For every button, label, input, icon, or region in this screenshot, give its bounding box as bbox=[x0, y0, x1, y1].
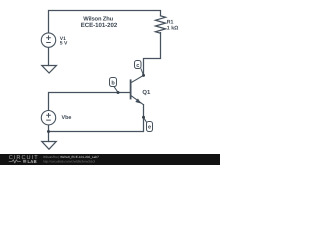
wire: junction to bottom ground bbox=[48, 132, 50, 142]
wire: emitter run bbox=[49, 105, 144, 132]
wire: Vbe bottom to junction bbox=[48, 125, 50, 132]
svg-text:c: c bbox=[136, 63, 139, 69]
svg-text:5 V: 5 V bbox=[60, 41, 68, 47]
wire: Vbe top to base of Q1 bbox=[49, 93, 131, 111]
flag c (collector terminal) bbox=[135, 61, 146, 77]
transistor Q1 bbox=[131, 75, 144, 104]
footer bar bbox=[0, 154, 220, 165]
svg-text:R1: R1 bbox=[167, 19, 174, 25]
voltage source V1 bbox=[41, 33, 55, 47]
svg-text:e: e bbox=[148, 125, 151, 131]
svg-text:1 kΩ: 1 kΩ bbox=[167, 25, 179, 31]
canvas background bbox=[0, 0, 220, 165]
resistor R1 bbox=[156, 16, 166, 33]
flag b (base terminal) bbox=[110, 78, 120, 95]
ground at bottom bbox=[42, 142, 56, 150]
svg-text:Vbe: Vbe bbox=[62, 115, 72, 121]
svg-text:LAB: LAB bbox=[28, 159, 37, 164]
wire: R1 bottom lead, jog to collector bbox=[144, 33, 161, 76]
voltage source Vbe bbox=[41, 111, 55, 125]
ground under V1 bbox=[42, 66, 57, 74]
flag e (emitter terminal) bbox=[142, 116, 153, 132]
svg-text:http://circuitlab.com/c/w58e3m: http://circuitlab.com/c/w58e3mw3ck3 bbox=[43, 159, 95, 163]
svg-text:Q1: Q1 bbox=[142, 89, 151, 96]
wire: V1 top to R1 top bbox=[49, 11, 161, 33]
node junction at Vbe bottom bbox=[47, 130, 50, 133]
svg-text:ECE-101-202: ECE-101-202 bbox=[81, 22, 118, 29]
wire: V1 bottom to ground bbox=[48, 47, 50, 65]
